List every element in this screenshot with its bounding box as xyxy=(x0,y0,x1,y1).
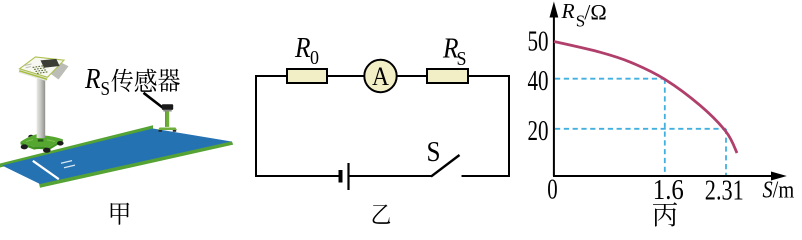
dashed guide 20 horizontal xyxy=(555,128,726,130)
resistor RS xyxy=(427,69,468,83)
dashed guide 40 horizontal xyxy=(555,78,665,80)
wire top right segment xyxy=(468,75,510,77)
switch S blade xyxy=(431,155,460,177)
svg-text:S/m: S/m xyxy=(763,177,795,203)
wire ammeter to RS xyxy=(397,75,428,77)
svg-text:2.31: 2.31 xyxy=(705,176,744,207)
sensor base xyxy=(158,128,177,131)
x axis xyxy=(553,175,773,177)
svg-text:50: 50 xyxy=(528,27,549,58)
battery short plate xyxy=(339,170,343,183)
svg-text:S: S xyxy=(101,78,111,100)
svg-text:0: 0 xyxy=(547,175,557,206)
console base xyxy=(21,134,64,153)
svg-text:R: R xyxy=(294,33,310,64)
wire bottom right segment xyxy=(462,175,511,177)
sensor head xyxy=(162,104,173,110)
svg-text:A: A xyxy=(372,62,389,91)
battery long plate xyxy=(347,163,349,190)
wire switch to battery xyxy=(349,175,432,177)
dashed guide 1.6 vertical xyxy=(664,79,666,175)
wire top left segment xyxy=(255,75,288,77)
caption yǐ (乙) xyxy=(373,204,391,223)
base wheels xyxy=(21,144,28,149)
caption bǐng (丙) xyxy=(653,202,677,226)
treadmill mat front green edge xyxy=(39,141,233,188)
caption jiǎ (甲) xyxy=(111,203,130,225)
svg-text:S: S xyxy=(457,48,467,70)
RS vs S curve xyxy=(554,42,737,154)
wire R0 to ammeter xyxy=(327,75,365,77)
svg-text:S: S xyxy=(427,137,441,168)
svg-text:1.6: 1.6 xyxy=(653,175,684,206)
wire battery to left xyxy=(255,175,340,177)
start white line on mat xyxy=(33,161,59,179)
svg-text:/Ω: /Ω xyxy=(584,0,606,24)
ammeter A xyxy=(364,60,396,92)
console panel xyxy=(19,57,69,81)
sensor pole xyxy=(166,112,170,127)
wire left vertical xyxy=(255,76,257,176)
resistor R0 xyxy=(287,69,327,83)
treadmill mat back green edge xyxy=(0,125,153,167)
svg-text:40: 40 xyxy=(528,66,549,97)
svg-text:R: R xyxy=(84,64,100,95)
svg-text:20: 20 xyxy=(528,116,549,147)
sensor pointer line xyxy=(144,93,163,108)
y axis xyxy=(553,14,555,176)
svg-text:0: 0 xyxy=(310,47,319,69)
dashed guide 2.31 vertical xyxy=(725,129,727,175)
mat logo marks xyxy=(61,161,75,168)
svg-text:R: R xyxy=(561,0,575,23)
wire right vertical xyxy=(508,76,510,176)
treadmill mat blue surface xyxy=(2,129,232,185)
